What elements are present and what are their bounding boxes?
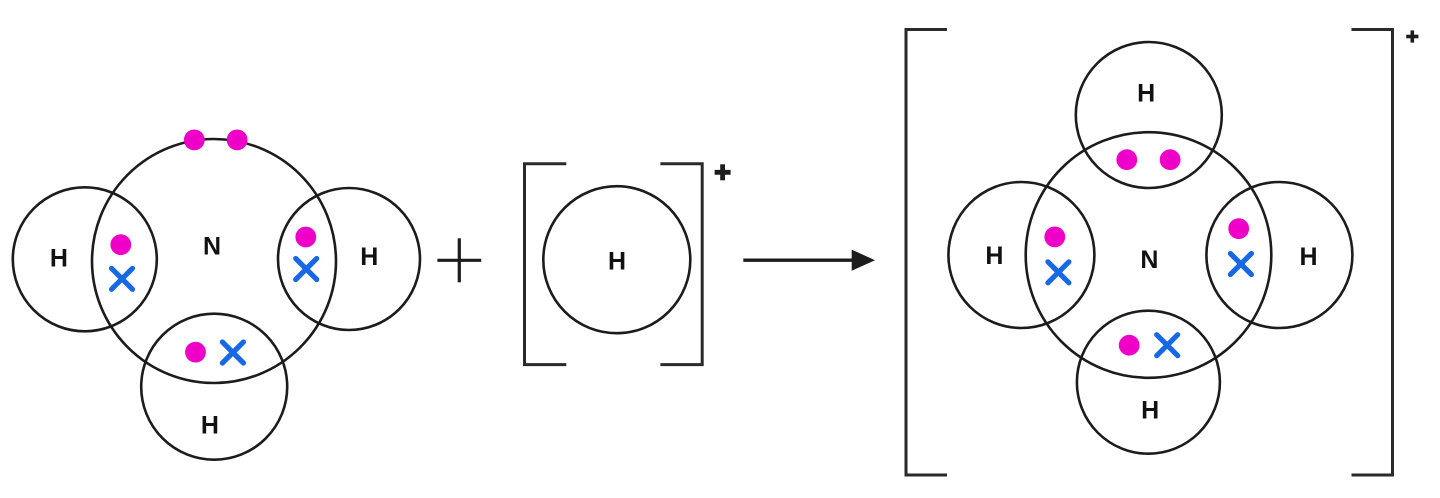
ammonium right H label <box>1299 243 1317 271</box>
ammonia right H shell circle <box>278 188 420 330</box>
reaction arrow <box>743 250 875 271</box>
ammonia lone pair dot 2 <box>227 130 248 151</box>
ammonia left bond electron cross <box>112 268 133 289</box>
ammonia lone pair dot 1 <box>184 130 205 151</box>
ammonium bottom H shell circle <box>1077 311 1220 454</box>
hydrogen ion plus superscript <box>715 164 731 180</box>
ammonia bottom bond electron dot <box>185 342 206 363</box>
ammonium top bond electron dot 1 <box>1116 149 1137 170</box>
ammonia left bond electron dot <box>110 234 131 255</box>
svg-text:H: H <box>985 242 1003 270</box>
svg-text:H: H <box>1137 79 1155 107</box>
ammonium right bond electron cross <box>1230 254 1251 275</box>
ammonia bottom H label <box>201 412 219 440</box>
ammonia N label <box>203 233 221 261</box>
ammonium right H shell circle <box>1206 182 1352 328</box>
hydrogen ion H label <box>608 247 626 275</box>
svg-text:H: H <box>1141 397 1159 425</box>
ammonium bottom H label <box>1141 397 1159 425</box>
ammonium bottom bond electron dot <box>1119 335 1140 356</box>
ammonium left bond electron dot <box>1044 227 1065 248</box>
ammonia bottom H shell circle <box>141 314 287 460</box>
plus operator <box>437 238 481 282</box>
svg-text:H: H <box>1299 243 1317 271</box>
svg-text:H: H <box>608 247 626 275</box>
ammonia right H label <box>360 243 378 271</box>
hydrogen ion left bracket <box>525 164 567 365</box>
ammonia right bond electron cross <box>296 259 317 280</box>
ammonium right bond electron dot <box>1228 218 1249 239</box>
ammonium right bracket <box>1352 30 1393 476</box>
hydrogen ion right bracket <box>660 164 702 365</box>
ammonium left bond electron cross <box>1048 262 1069 283</box>
ammonium top bond electron dot 2 <box>1160 149 1181 170</box>
ammonium left H shell circle <box>948 182 1094 328</box>
ammonium left H label <box>985 242 1003 270</box>
ammonium N outer shell circle <box>1026 132 1272 378</box>
svg-text:H: H <box>201 412 219 440</box>
ammonia left H label <box>50 245 68 273</box>
svg-text:H: H <box>360 243 378 271</box>
svg-text:N: N <box>203 233 221 261</box>
ammonia right bond electron dot <box>295 227 316 248</box>
ammonium left bracket <box>906 30 947 476</box>
ammonia left H shell circle <box>13 187 157 331</box>
hydrogen ion H shell circle <box>543 186 690 333</box>
ammonium N label <box>1140 246 1158 274</box>
svg-text:N: N <box>1140 246 1158 274</box>
ammonia bottom bond electron cross <box>222 342 243 363</box>
svg-text:H: H <box>50 245 68 273</box>
ammonium bottom bond electron cross <box>1157 335 1178 356</box>
ammonium plus superscript <box>1406 30 1418 42</box>
ammonia N outer shell circle <box>92 139 336 383</box>
ammonium top H shell circle <box>1076 42 1222 188</box>
ammonium top H label <box>1137 79 1155 107</box>
